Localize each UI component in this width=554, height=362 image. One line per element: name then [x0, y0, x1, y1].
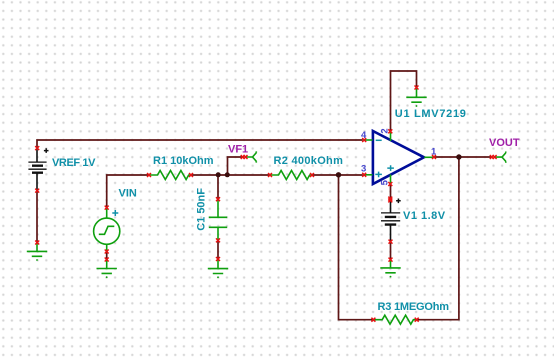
- node VF1 hook: [246, 151, 256, 162]
- wire V1 to ground: [390, 242, 392, 260]
- wire R3 right to output node: [417, 157, 459, 320]
- pin marker U1 pin1: [432, 155, 436, 159]
- svg-text:C1 50nF: C1 50nF: [196, 188, 208, 231]
- pin marker U1 pin4: [362, 138, 366, 142]
- minus mark pin4: [376, 139, 382, 141]
- wire VIN bottom to ground: [106, 252, 108, 260]
- ground for C1: [208, 259, 228, 278]
- svg-text:V1 1.8V: V1 1.8V: [403, 210, 446, 222]
- pin marker U1 pin2: [388, 129, 392, 133]
- pin 1 stub: [424, 156, 433, 158]
- pin marker VIN+: [105, 206, 109, 210]
- svg-text:U1 LMV7219: U1 LMV7219: [395, 108, 467, 120]
- pin 2 stub: [390, 131, 392, 141]
- wire U1 pin2 to ground: [391, 71, 417, 131]
- wire node to VF1: [228, 157, 245, 175]
- pin marker R2 right: [310, 173, 314, 177]
- pin marker VOUT: [490, 155, 497, 159]
- pin marker R3 right: [415, 318, 419, 322]
- wire node to R3 left: [339, 175, 374, 320]
- wire R2 right to U1 pin3: [312, 174, 363, 176]
- wire VREF top to U1 pin4: [37, 140, 363, 148]
- svg-text:VOUT: VOUT: [489, 137, 520, 149]
- pin marker U1 pin5: [388, 182, 392, 186]
- wire C1 bottom to ground: [217, 240, 219, 259]
- op-amp U1: [373, 131, 424, 184]
- resistor R1: [149, 171, 191, 180]
- pin marker R3 left: [371, 318, 375, 322]
- wire U1 pin1 to VOUT: [434, 156, 493, 158]
- svg-text:R1 10kOhm: R1 10kOhm: [153, 155, 214, 167]
- ground for U1: [406, 88, 426, 107]
- pin marker VIN-: [105, 250, 109, 254]
- pin marker VREF gnd: [35, 241, 39, 245]
- wire node to C1 top: [217, 175, 219, 199]
- pin marker U1 pin3: [362, 173, 366, 177]
- pin marker R1 right: [189, 173, 193, 177]
- ground for V1: [380, 260, 400, 278]
- pin 5 stub: [390, 175, 392, 185]
- pin marker C1 top: [216, 197, 220, 201]
- pin marker R2 left: [268, 173, 272, 177]
- pin marker VF1: [241, 155, 248, 159]
- wire VREF bottom to ground: [36, 191, 38, 243]
- pin marker R1 left: [147, 173, 151, 177]
- pin marker VIN gnd: [105, 258, 109, 262]
- pin marker C1 gnd: [216, 257, 220, 261]
- ground for VREF: [27, 243, 47, 261]
- source VIN: [94, 208, 120, 252]
- resistor R3: [373, 315, 416, 324]
- pin marker V1-: [389, 240, 393, 244]
- plus mark supply: [387, 165, 394, 171]
- pin marker VREF+: [35, 146, 39, 150]
- junction node VOUT: [456, 154, 461, 159]
- battery VREF: [28, 148, 48, 189]
- pin marker V1 gnd: [389, 258, 393, 262]
- resistor R2: [270, 171, 312, 180]
- junction node C1: [216, 172, 221, 177]
- wire U1 pin5 to V1: [390, 184, 392, 199]
- pin marker U1 gnd: [415, 86, 419, 90]
- plus mark pin3: [375, 172, 382, 178]
- ground for VIN: [97, 260, 117, 279]
- svg-text:VREF 1V: VREF 1V: [52, 157, 96, 169]
- wire VIN to R1 left: [107, 175, 149, 208]
- wire R1 right to R2 left: [191, 174, 270, 176]
- capacitor C1: [209, 199, 227, 240]
- node VOUT hook: [495, 152, 506, 163]
- svg-text:VF1: VF1: [228, 144, 248, 156]
- pin marker C1 bottom: [216, 238, 220, 242]
- pin 4 stub: [364, 139, 373, 141]
- junction node R3: [336, 172, 341, 177]
- junction node VF1: [225, 172, 230, 177]
- pin 3 stub: [364, 174, 373, 176]
- pin marker VREF-: [35, 189, 39, 193]
- svg-text:R2 400kOhm: R2 400kOhm: [274, 155, 344, 167]
- pin marker V1+: [388, 197, 392, 203]
- svg-text:VIN: VIN: [119, 188, 137, 200]
- svg-text:R3 1MEGOhm: R3 1MEGOhm: [378, 301, 450, 313]
- battery V1: [381, 199, 401, 241]
